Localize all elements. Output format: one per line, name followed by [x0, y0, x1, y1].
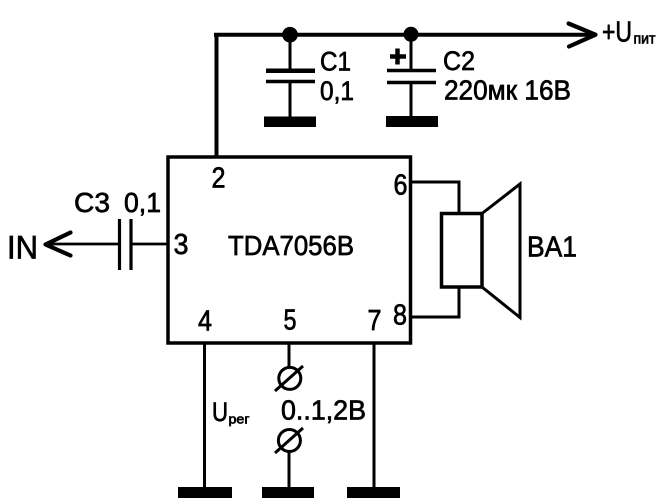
speaker BA1	[442, 184, 521, 318]
svg-text:C1: C1	[320, 47, 351, 77]
wire: pin 4 to ground	[203, 342, 206, 488]
svg-text:6: 6	[394, 170, 408, 202]
arrowhead: +Uпит supply arrow	[569, 24, 596, 47]
label C3 value	[74, 187, 161, 218]
svg-text:рег: рег	[229, 412, 250, 427]
wire: pin 5 to upper terminal	[288, 342, 291, 368]
svg-text:0,1: 0,1	[320, 76, 354, 106]
IC TDA7056B body	[168, 157, 411, 343]
svg-text:0,1: 0,1	[124, 187, 161, 218]
wire: pin 7 to ground	[373, 342, 376, 488]
svg-text:+U: +U	[602, 17, 632, 49]
capacitor C1	[266, 34, 315, 118]
ground under C1	[264, 117, 316, 128]
capacitor C3	[120, 219, 132, 270]
svg-text:BA1: BA1	[527, 232, 577, 264]
wire: pin 3 to C3	[131, 243, 168, 246]
ground under C2	[386, 116, 438, 127]
capacitor C2 (electrolytic, + mark)	[387, 34, 436, 118]
ground bar under pin 5	[262, 487, 314, 498]
wire: +supply top rail	[214, 33, 591, 37]
svg-text:3: 3	[174, 229, 189, 261]
svg-text:2: 2	[212, 163, 226, 195]
terminal: lower open circle with slash	[275, 428, 303, 453]
svg-text:пит: пит	[634, 31, 656, 48]
svg-text:C2: C2	[443, 46, 475, 76]
wire: pin 8 to speaker	[410, 286, 459, 317]
svg-text:7: 7	[368, 305, 382, 337]
ground bar under pin 4	[178, 487, 232, 498]
wire: pin 6 to speaker	[410, 182, 459, 215]
terminal: upper open circle with slash	[275, 366, 303, 391]
svg-text:IN: IN	[7, 230, 38, 266]
arrowhead: IN input arrow	[46, 233, 71, 256]
wire: riser from pin 2 to top rail	[215, 34, 219, 158]
wire: lower terminal to ground	[288, 452, 291, 488]
ground bar under pin 7	[347, 487, 400, 498]
svg-text:4: 4	[198, 306, 212, 338]
svg-text:0..1,2В: 0..1,2В	[281, 395, 366, 426]
svg-text:C3: C3	[74, 187, 110, 218]
node: junction dot at C2 tap	[404, 27, 419, 42]
svg-text:8: 8	[393, 300, 407, 332]
label C1 value	[320, 47, 354, 107]
node: junction dot at C1 tap	[282, 27, 298, 43]
wire: C3 to input arrow	[48, 243, 119, 246]
svg-text:U: U	[212, 397, 228, 427]
svg-text:220мк 16В: 220мк 16В	[444, 75, 571, 106]
label C2 value	[443, 46, 571, 106]
svg-text:TDA7056B: TDA7056B	[228, 230, 354, 261]
label Uрег	[212, 397, 250, 427]
svg-text:5: 5	[284, 305, 297, 337]
